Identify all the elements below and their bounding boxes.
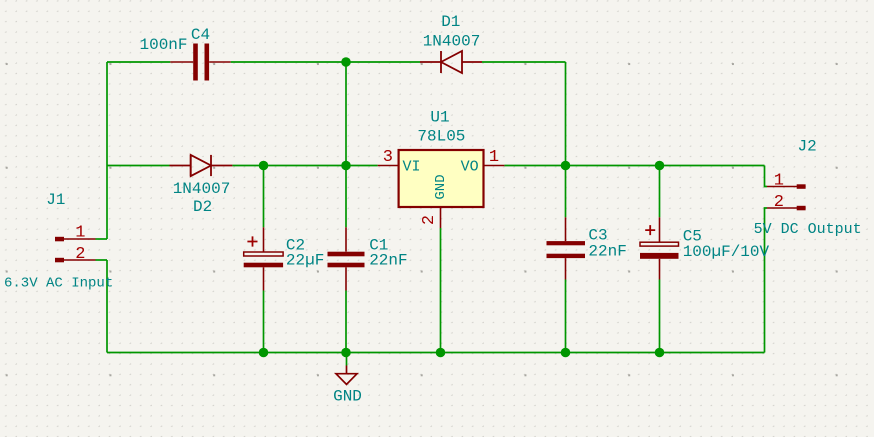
- svg-text:6.3V AC Input: 6.3V AC Input: [4, 276, 113, 292]
- svg-text:78L05: 78L05: [417, 128, 465, 146]
- svg-text:1: 1: [774, 172, 784, 191]
- svg-text:1N4007: 1N4007: [423, 32, 481, 50]
- svg-text:VI: VI: [403, 158, 421, 175]
- svg-text:2: 2: [420, 215, 439, 225]
- svg-text:D2: D2: [193, 198, 212, 216]
- svg-text:100nF: 100nF: [139, 36, 187, 54]
- svg-text:2: 2: [774, 193, 784, 212]
- svg-text:1N4007: 1N4007: [173, 180, 231, 198]
- svg-text:VO: VO: [461, 158, 479, 175]
- svg-text:22nF: 22nF: [369, 252, 407, 270]
- svg-text:GND: GND: [433, 174, 449, 199]
- svg-text:22µF: 22µF: [286, 252, 324, 270]
- svg-text:J1: J1: [46, 191, 65, 209]
- svg-text:GND: GND: [333, 387, 362, 405]
- svg-text:C4: C4: [191, 26, 210, 44]
- svg-text:2: 2: [75, 245, 85, 264]
- svg-text:5V DC Output: 5V DC Output: [754, 221, 862, 238]
- svg-text:1: 1: [489, 148, 499, 167]
- svg-text:22nF: 22nF: [588, 242, 626, 260]
- svg-text:1: 1: [75, 224, 85, 243]
- svg-text:100µF/10V: 100µF/10V: [683, 243, 770, 261]
- svg-text:U1: U1: [430, 108, 449, 126]
- svg-text:3: 3: [383, 148, 393, 167]
- svg-text:D1: D1: [441, 13, 460, 31]
- svg-text:J2: J2: [797, 137, 816, 155]
